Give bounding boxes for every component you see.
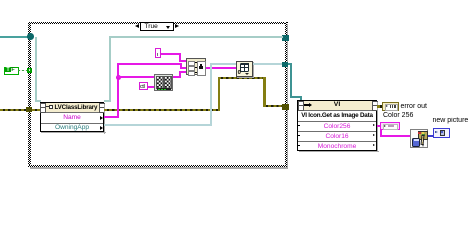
string constant (empty): [155, 48, 161, 58]
label new picture: [433, 117, 469, 125]
wire concat out: [206, 67, 236, 69]
wire checker out: [173, 76, 180, 78]
node shadow: [104, 104, 105, 134]
wire class refnum in (teal, from left edge): [0, 36, 28, 38]
wire refnum down to property node: [35, 37, 37, 101]
wire OwningApp (pale): [104, 124, 212, 126]
selector right arrow: [175, 24, 179, 28]
wire error down right: [263, 77, 266, 108]
Color 256 indicator terminal: [380, 122, 400, 130]
wire vi refnum outside (teal): [288, 63, 292, 65]
wire error out stub: [377, 105, 382, 107]
checker node (ctl to image): [154, 74, 174, 91]
open vi reference node: [236, 61, 253, 78]
wire error from node to loop: [104, 109, 220, 112]
wire error under open-vi-ref: [218, 77, 266, 80]
wire ctl: [148, 86, 155, 88]
new picture indicator: [433, 128, 450, 138]
tunnel class refnum in (junction dot): [27, 33, 34, 40]
tunnel error out: [282, 104, 289, 110]
concatenate strings node: [186, 58, 206, 75]
param arrows: [373, 124, 375, 126]
case shadow right: [287, 24, 289, 169]
boolean constant TF: [4, 67, 19, 76]
wire Color256 down to picture: [380, 130, 382, 137]
param input marks: [298, 125, 300, 127]
wire error to tunnel: [263, 105, 282, 108]
case shadow bottom: [30, 167, 289, 169]
wire Name (pink): [104, 116, 119, 118]
tunnel class refnum out: [282, 35, 289, 41]
invoke node corner terminals: [298, 101, 304, 107]
case selector label True: [140, 22, 175, 31]
node corner terminals: [40, 103, 46, 109]
tunnel error in: [26, 107, 32, 113]
wire error in (olive, from left edge): [0, 109, 26, 112]
invoke node VI: [297, 100, 377, 151]
wire Name branch to checker node: [117, 76, 154, 78]
method row: [297, 112, 377, 120]
case structure border left: [28, 22, 31, 168]
case structure border top: [28, 22, 288, 25]
param Monochrome: [297, 143, 377, 151]
junction dot pink: [116, 75, 121, 80]
label error out: [401, 103, 427, 111]
wire class out to tunnel (teal, top): [109, 36, 283, 38]
selector left arrow: [135, 24, 139, 28]
wire error up: [218, 77, 221, 112]
property node LVClassLibrary: [40, 102, 105, 132]
property Name: [56, 114, 88, 122]
property OwningApp: [48, 124, 96, 132]
case structure border bottom: [28, 165, 287, 168]
wire string constant: [161, 53, 181, 55]
label Color 256: [383, 112, 413, 120]
wire error to property node: [32, 109, 41, 112]
wire picture out (blue): [428, 135, 433, 137]
string constant ctl: [139, 82, 148, 90]
selector dropdown arrow: [166, 26, 170, 29]
wire vi refnum out (pale): [253, 63, 283, 65]
param Color256: [297, 123, 377, 131]
draw flattened pixmap node: [410, 129, 427, 148]
wire Color256 stub: [377, 125, 381, 127]
invoke node shadow: [377, 102, 378, 152]
boolean wire: [18, 70, 27, 72]
case structure border right: [285, 22, 288, 168]
invoke arrow glyph: [304, 104, 309, 106]
boolean selector tunnel: [27, 68, 32, 73]
error out indicator: [382, 102, 399, 111]
param Color16: [297, 133, 377, 141]
tunnel vi refnum out: [282, 62, 288, 68]
